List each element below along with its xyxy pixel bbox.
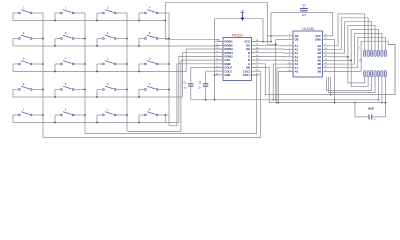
svg-text:C1: C1 (183, 81, 187, 84)
row line R5 (13, 122, 179, 124)
svg-text:B6: B6 (318, 62, 322, 66)
wire row4 to U1 ROW4 pin (183, 53, 224, 97)
switch S17 (row 5 col 1) (13, 114, 18, 116)
capacitor C2 (205, 71, 207, 84)
svg-text:A2: A2 (295, 48, 299, 52)
J2 pin6 lead (381, 77, 383, 103)
svg-text:ROW4: ROW4 (225, 51, 234, 55)
svg-text:1: 1 (216, 40, 217, 42)
svg-text:+: + (374, 119, 376, 122)
svg-text:G: G (107, 84, 109, 86)
svg-text:7: 7 (216, 62, 217, 64)
wire B6 to J1 pin6 (329, 33, 382, 64)
switch S12 (row 3 col 4) (139, 63, 144, 65)
svg-text:2: 2 (65, 8, 67, 10)
wire row5 to U1 ROW5 pin (179, 56, 223, 122)
wire col4 to U1 pin (169, 64, 223, 126)
switch S8 (row 2 col 4) (139, 38, 144, 40)
net L6 (269, 102, 355, 104)
svg-text:7: 7 (289, 59, 290, 61)
wire B8 far right loop (329, 41, 396, 94)
svg-text:4: 4 (216, 51, 217, 53)
svg-text:20: 20 (256, 73, 258, 75)
svg-text:OE: OE (246, 47, 250, 51)
svg-text:9: 9 (216, 70, 217, 72)
svg-text:3: 3 (107, 8, 109, 10)
svg-text:ROW1: ROW1 (225, 40, 234, 44)
svg-text:OE: OE (295, 38, 299, 42)
switch S7 (row 2 col 3) (97, 38, 102, 40)
VCC top wire A (271, 13, 333, 36)
svg-text:J: J (23, 110, 24, 112)
row5 stub to switch (164, 115, 166, 123)
VCC vertical (270, 13, 272, 42)
wire row1 to U1 ROW1 pin (165, 39, 223, 41)
switch S10 (row 3 col 2) (55, 63, 60, 65)
svg-text:1n: 1n (198, 87, 201, 90)
svg-text:B7: B7 (318, 66, 322, 70)
wire A6 (273, 64, 293, 100)
svg-text:19: 19 (325, 38, 327, 40)
svg-text:4: 4 (289, 48, 290, 50)
svg-text:8: 8 (216, 66, 217, 68)
svg-text:4u7: 4u7 (302, 14, 307, 17)
wire B2 to J1 pin2 (329, 18, 369, 50)
svg-text:COLA: COLA (225, 66, 233, 70)
wire B5 tap to J2 pin2 (351, 60, 368, 86)
svg-text:5: 5 (65, 33, 67, 35)
svg-text:C: C (248, 55, 250, 59)
row line R1 (13, 20, 165, 22)
U2 GND descent (329, 40, 335, 103)
svg-text:GND: GND (225, 73, 231, 77)
svg-text:GND: GND (315, 38, 321, 42)
svg-text:B3: B3 (318, 51, 322, 55)
svg-text:DA: DA (246, 43, 250, 47)
svg-text:A8: A8 (295, 69, 299, 73)
svg-text:10: 10 (216, 73, 218, 75)
svg-text:KBM: KBM (225, 62, 232, 66)
svg-text:1: 1 (289, 34, 290, 36)
switch S19 (row 5 col 3) (97, 114, 102, 116)
svg-text:2: 2 (216, 44, 217, 46)
svg-text:1n: 1n (184, 87, 187, 90)
wire B7 feed to J2 pin4 (329, 77, 376, 93)
switch S1 (row 1 col 1) (13, 12, 18, 14)
wire B7 to J1 pin7 (329, 37, 386, 67)
wire row2 to U1 ROW2 pin (219, 44, 223, 47)
switch S13 (row 4 col 1) (13, 89, 18, 91)
svg-text:3: 3 (289, 44, 290, 46)
svg-text:D: D (248, 51, 250, 55)
svg-text:F: F (65, 84, 67, 86)
junctions on row line R1 (54, 20, 56, 22)
svg-text:A6: A6 (295, 62, 299, 66)
svg-text:74C922: 74C922 (231, 33, 243, 37)
svg-text:COL2: COL2 (243, 69, 251, 73)
wire B3 to J1 pin3 (329, 22, 372, 53)
svg-text:VCC: VCC (244, 40, 250, 44)
svg-text:OSC: OSC (225, 58, 231, 62)
svg-text:B: B (248, 58, 250, 62)
svg-text:C2: C2 (198, 81, 202, 84)
column line C2 (84, 13, 86, 134)
svg-text:VCC: VCC (315, 34, 321, 38)
U2 OE wire (268, 40, 288, 45)
op-amp U2 74LS245 buffer (293, 31, 323, 77)
wire B5 to J1 pin5 (329, 30, 379, 61)
column line C1 (42, 13, 44, 137)
U1 GND pin wire (215, 74, 224, 76)
svg-text:COL3: COL3 (225, 69, 233, 73)
svg-text:ROW2: ROW2 (225, 43, 234, 47)
switch S6 (row 2 col 2) (55, 38, 60, 40)
svg-text:5: 5 (289, 52, 290, 54)
svg-text:B2: B2 (318, 48, 322, 52)
wire B4 tap to J2 pin1 (348, 57, 365, 83)
svg-text:2: 2 (289, 38, 290, 40)
row line R3 (13, 71, 186, 73)
switch S5 (row 2 col 1) (13, 38, 18, 40)
svg-text:11: 11 (256, 70, 258, 72)
data wire D2 (252, 52, 288, 54)
J2 pin7 lead (384, 77, 386, 103)
svg-text:17: 17 (325, 44, 327, 46)
junctions on row line R3 (54, 71, 56, 73)
svg-text:ROW5: ROW5 (225, 55, 234, 59)
wire col3 to U1 pin (127, 60, 223, 131)
svg-text:74LS245: 74LS245 (301, 27, 314, 31)
wire B8 feed to long net (329, 77, 331, 95)
svg-text:10: 10 (325, 70, 327, 72)
wire B6 feed to J2 pin3 (327, 77, 372, 91)
switch S15 (row 4 col 3) (97, 89, 102, 91)
svg-text:16: 16 (325, 48, 327, 50)
svg-text:K: K (65, 110, 67, 112)
svg-text:C4: C4 (303, 5, 307, 7)
svg-text:14: 14 (325, 55, 327, 57)
switch S2 (row 1 col 2) (55, 12, 60, 14)
junctions on row line R2 (54, 45, 56, 47)
wire B1 to J1 pin1 (329, 14, 365, 50)
op-amp U1 74C922 keypad encoder (223, 38, 252, 81)
wire col2 to U1 COL2 (85, 75, 257, 134)
wire U1 p8 descent (252, 68, 270, 103)
svg-text:ROW3: ROW3 (225, 47, 234, 51)
svg-text:1: 1 (359, 48, 361, 50)
svg-text:A3: A3 (295, 51, 299, 55)
power rail vertical (214, 19, 216, 100)
wire U1 p7 long net (252, 45, 396, 95)
row line R2 (13, 45, 219, 47)
svg-text:M: M (149, 110, 151, 112)
svg-text:6: 6 (107, 33, 109, 35)
switch S3 (row 1 col 3) (97, 12, 102, 14)
svg-text:AB: AB (295, 34, 299, 38)
svg-text:A7: A7 (295, 66, 299, 70)
svg-text:H: H (149, 84, 151, 86)
wire B4 to J1 pin4 (329, 26, 376, 57)
power rail top wire (215, 19, 264, 42)
junctions on row line R4 (54, 96, 56, 98)
wire row1 riser/top net (165, 3, 267, 45)
svg-text:L: L (107, 110, 109, 112)
data wire D0 (252, 44, 288, 47)
svg-text:A5: A5 (295, 59, 299, 63)
J2 pin5 lead (378, 77, 380, 100)
svg-text:B8: B8 (318, 69, 322, 73)
capacitor C3 60uF (355, 102, 385, 104)
column line C3 (126, 13, 128, 131)
wire row3 to U1 ROW3 pin (186, 49, 223, 72)
svg-text:A1: A1 (295, 44, 299, 48)
net ground line (191, 99, 379, 101)
svg-text:P2: P2 (359, 60, 362, 62)
switch S4 (row 1 col 4) (139, 12, 144, 14)
svg-text:4: 4 (23, 33, 25, 35)
svg-text:B: B (149, 33, 151, 35)
switch S9 (row 3 col 1) (13, 63, 18, 65)
svg-text:A4: A4 (295, 55, 299, 59)
svg-text:13: 13 (325, 59, 327, 61)
svg-text:9: 9 (65, 59, 67, 61)
svg-text:12: 12 (325, 62, 327, 64)
svg-text:C: C (107, 59, 109, 61)
svg-text:A: A (248, 62, 250, 66)
data wire D1 (252, 48, 288, 50)
switch S20 (row 5 col 4) (139, 114, 144, 116)
U1 VCC wire (252, 41, 272, 43)
data wire D3 (252, 55, 288, 57)
svg-text:D: D (149, 59, 151, 61)
svg-text:1: 1 (23, 8, 25, 10)
svg-text:8: 8 (23, 59, 25, 61)
switch S11 (row 3 col 3) (97, 63, 102, 65)
column line C4 (168, 13, 170, 126)
row line R4 (13, 96, 183, 98)
wire A7 (277, 68, 293, 103)
U2 DIR pin wire (268, 35, 288, 37)
svg-text:20: 20 (325, 34, 327, 36)
svg-text:B4: B4 (318, 55, 322, 59)
data wire D4 (252, 59, 288, 61)
svg-text:OB: OB (246, 66, 250, 70)
svg-text:3: 3 (216, 47, 217, 49)
wire col1 to U1 COL1 (43, 71, 261, 137)
svg-text:E: E (23, 84, 25, 86)
svg-text:11: 11 (325, 66, 327, 68)
svg-text:B5: B5 (318, 59, 322, 63)
svg-text:6: 6 (216, 59, 217, 61)
svg-text:5: 5 (216, 55, 217, 57)
svg-text:A: A (149, 7, 151, 10)
svg-text:COL1: COL1 (243, 73, 251, 77)
switch S16 (row 4 col 4) (139, 89, 144, 91)
svg-text:15: 15 (325, 52, 327, 54)
svg-text:60uF: 60uF (368, 108, 374, 111)
capacitor C1 (190, 68, 192, 84)
switch S18 (row 5 col 2) (55, 114, 60, 116)
switch S14 (row 4 col 2) (55, 89, 60, 91)
svg-text:6: 6 (289, 55, 290, 57)
junctions on row line R5 (54, 122, 56, 124)
svg-text:B1: B1 (318, 44, 322, 48)
wire A8 (279, 71, 294, 102)
